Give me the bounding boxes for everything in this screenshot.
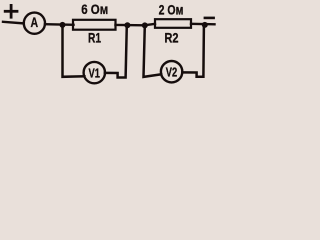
svg-text:A: A (31, 15, 39, 31)
svg-text:V2: V2 (166, 66, 177, 80)
svg-text:V1: V1 (88, 67, 99, 81)
svg-text:R2: R2 (164, 30, 178, 46)
svg-text:R1: R1 (88, 30, 101, 46)
svg-text:6 Ом: 6 Ом (81, 2, 108, 17)
svg-text:2 Ом: 2 Ом (159, 2, 184, 18)
